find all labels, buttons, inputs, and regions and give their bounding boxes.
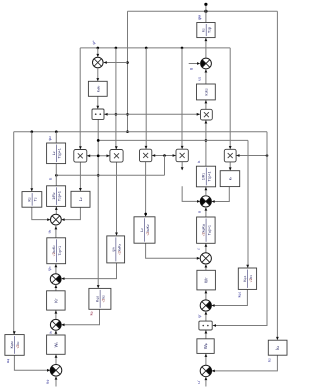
arrow into sumF right (212, 200, 215, 203)
sum circle S2R (200, 300, 211, 311)
block P1 gain (88, 81, 107, 96)
wire M1 out (79, 162, 81, 190)
svg-text:ψ*: ψ* (92, 40, 96, 45)
multiplier M2 (110, 150, 123, 163)
arrow into sumF left (197, 200, 200, 203)
arrow into mult M3 (145, 146, 148, 149)
node left chain tap (55, 174, 58, 177)
wire V8 tap down (164, 156, 166, 176)
arrow into block KM (13, 331, 16, 334)
block L2 transfer (47, 186, 66, 207)
block F gain (89, 288, 111, 309)
block K2 gain KT (47, 291, 66, 310)
divide block D2 (199, 321, 212, 330)
block BC transfer (47, 238, 66, 264)
block J regulator Wpsi (197, 339, 214, 354)
sum circle SF filled (200, 196, 211, 207)
arrow into block Ls (181, 167, 184, 170)
wire input u stub (189, 63, 200, 65)
wire G up to CR (205, 264, 207, 270)
sum circle S3R (200, 365, 211, 376)
arrow into C2 bottom (55, 226, 58, 229)
svg-text:L2: L2 (52, 151, 56, 155)
node psiM junction (204, 10, 207, 13)
block TR transfer (196, 166, 215, 187)
arrow into block G bottom (205, 290, 208, 293)
wire left feedback V1 (13, 132, 15, 334)
svg-text:T1p+1: T1p+1 (208, 172, 212, 182)
wire psiM output stub (205, 4, 207, 11)
arrow into block L2s (79, 188, 82, 191)
svg-text:k2: k2 (267, 358, 271, 362)
arrow into divide D1 (96, 106, 99, 109)
block kC gain (268, 340, 287, 355)
arrow into M3 right (152, 154, 155, 157)
wire divide D1 down V4 (97, 119, 99, 287)
block W2 regulator (47, 335, 66, 354)
wire S2R up to G (205, 290, 207, 300)
node H3 x=56.3 (55, 130, 58, 133)
wire M5 right input (236, 155, 267, 157)
svg-text:k2: k2 (202, 28, 206, 32)
wire psiM block to bus (205, 11, 207, 22)
wire u psi input stub (55, 376, 57, 386)
wire B33 out to CR (146, 243, 200, 258)
svg-text:ú: ú (198, 211, 202, 213)
arrow into mult M5 (229, 146, 232, 149)
arrow into mult M4 (181, 146, 184, 149)
node V4 y=175.3 (97, 174, 100, 177)
arrow into C3 bottom (55, 285, 58, 288)
svg-text:uc: uc (48, 330, 52, 334)
block H gain (238, 268, 256, 289)
svg-text:√2ksKs: √2ksKs (117, 243, 121, 254)
arrow into block k6 (229, 167, 232, 170)
wire V9 x=182 (181, 48, 183, 148)
wire M6 up to P2 (205, 100, 207, 109)
svg-text:√2k2K2: √2k2K2 (146, 224, 150, 236)
svg-text:√2k2: √2k2 (102, 295, 106, 303)
svg-text:1/R1: 1/R1 (202, 173, 206, 181)
wire M5 out (229, 162, 231, 170)
wire C4 up to K2 (55, 310, 57, 319)
wire sumF up to TR (205, 187, 207, 196)
svg-text:kskr: kskr (96, 86, 100, 92)
node bus47 x=97.8 (97, 47, 100, 50)
svg-text:u´: u´ (196, 380, 201, 384)
arrow into mult M1 (79, 146, 82, 149)
arrow into L2 bottom (55, 207, 58, 210)
svg-text:ψA: ψA (111, 247, 115, 252)
svg-text:Kψ1: Kψ1 (243, 275, 247, 281)
arrow into psiM block bottom (205, 38, 208, 41)
wire bus y=47.9 (80, 47, 230, 49)
svg-text:√2k1: √2k1 (249, 275, 253, 283)
wire B22 out to C3 (62, 263, 117, 279)
arrow into mult M6 left (197, 113, 200, 116)
svg-text:T2p+1: T2p+1 (58, 148, 62, 158)
wire C3 up to BC (55, 264, 57, 274)
arrow into C5 left (47, 369, 50, 372)
arrow into sum C1 top (96, 54, 99, 57)
wire V12 x=248 (247, 140, 249, 267)
wire W2 up to C4 (55, 330, 57, 335)
svg-text:L2: L2 (140, 228, 144, 232)
svg-text:√2kψKψ: √2kψKψ (202, 224, 206, 236)
arrow into BC bottom (55, 264, 58, 267)
wire S3R up to J (205, 353, 207, 365)
svg-text:i2: i2 (49, 177, 53, 180)
arrow into divide D2 right (213, 324, 216, 327)
node H3 x=31.8 (31, 130, 34, 133)
wire K2 up to C3 (55, 285, 57, 291)
arrow into sum S1 left (197, 62, 200, 65)
node V5 y=114.3 (115, 113, 118, 116)
wire KM out to C5 (14, 355, 49, 370)
svg-text:kr: kr (228, 177, 233, 180)
node above B33 (144, 213, 147, 216)
wire V5 x=115.9 (115, 48, 117, 149)
node V4 y=155.8 (97, 155, 100, 158)
arrow into S3R bottom (205, 377, 208, 380)
arrow into C2 right (61, 218, 64, 221)
arrow into CR left (197, 257, 200, 260)
wire CR up to D (205, 243, 207, 253)
svg-text:Wc: Wc (53, 341, 58, 347)
wire bus H4 y=140.4 (98, 139, 248, 141)
arrow into C4 right (61, 323, 64, 326)
arrow into M2 left (107, 154, 110, 157)
multiplier M4 (176, 149, 188, 162)
node bus47 x=146.2 (145, 47, 148, 50)
arrow into M5 right (236, 154, 239, 157)
node spine at H4 (205, 139, 208, 142)
wire Ls out to sumF (182, 186, 199, 201)
sum circle C2 (51, 214, 62, 225)
arrow into block B22 (115, 233, 118, 236)
wire S1 up to psiM block (205, 38, 207, 59)
svg-text:ψ´: ψ´ (198, 314, 202, 318)
wire F out to C4 (62, 309, 100, 325)
arrow into J bottom (205, 354, 208, 357)
multiplier M3 (140, 149, 152, 162)
wire V13 x=267 (213, 132, 267, 326)
block G regulator WT (197, 270, 216, 290)
arrow into block H (246, 265, 249, 268)
arrow into M4 left (173, 154, 176, 157)
block G-psiM transfer (197, 23, 215, 38)
arrow into block A (30, 188, 33, 191)
svg-text:Kψ2: Kψ2 (96, 295, 100, 301)
svg-text:Tcp+1: Tcp+1 (58, 246, 62, 256)
svg-text:k1k2: k1k2 (205, 88, 209, 95)
svg-text:ψc: ψc (48, 266, 52, 271)
arrow into D2 bottom (205, 330, 208, 333)
svg-text:i´: i´ (197, 247, 201, 249)
node link12 (97, 155, 100, 158)
multiplier M1 (74, 150, 87, 163)
wire C5 up to W2 (55, 354, 57, 364)
wire D up to sumF (205, 207, 207, 217)
wire L2s out to C2 (62, 207, 80, 219)
svg-text:ψ2: ψ2 (48, 136, 52, 141)
svg-text:kψ1: kψ1 (238, 291, 242, 297)
node psiM stub end (204, 3, 207, 6)
wire psiM line y=114.3 to M6 and D1 (104, 113, 200, 115)
wire M1-M2 link (87, 155, 110, 157)
wire J up to D2 (205, 330, 207, 339)
arrow into C5 bottom (55, 376, 58, 379)
arrow into W2 bottom (55, 355, 58, 358)
arrow into block F (97, 285, 100, 288)
multiplier M5 (224, 149, 236, 162)
wire V to block A (31, 132, 33, 191)
wire BC up to C2 (55, 225, 57, 238)
sum circle CR (200, 253, 211, 264)
arrow into C2 left (47, 218, 50, 221)
wire V11 x=230.2 to mult M5 (229, 48, 231, 149)
arrow into P2 bottom (205, 100, 208, 103)
arrow into block D bottom (205, 244, 208, 247)
wire k6 out to sumF (212, 187, 229, 202)
sum circle C1 (93, 57, 104, 68)
wire TR up to M6 (205, 120, 207, 166)
wire C1 to block P1 (97, 68, 99, 81)
wire psiM top bus y=11 (128, 10, 278, 12)
wire H out to S2R (212, 289, 247, 305)
wire L1 to L2 gap (55, 164, 57, 186)
arrow into M1 right (87, 154, 90, 157)
wire feedback right V14 (276, 11, 278, 339)
node V6 tap y=62.5 (126, 61, 129, 64)
arrow into mult M2 (115, 146, 118, 149)
arrow into S2R bottom (205, 311, 208, 314)
arrow into M6 bottom (205, 120, 208, 123)
wire left chain top (55, 132, 57, 143)
arrow into C3 right (61, 277, 64, 280)
svg-text:u1: u1 (197, 76, 201, 80)
wire P1 to divide D1 (97, 96, 99, 108)
svg-text:KT: KT (53, 298, 58, 303)
arrow into K2 bottom (55, 310, 58, 313)
block L1 transfer (47, 143, 66, 164)
arrow into S3R right (212, 370, 215, 373)
wire M3 out (145, 162, 147, 216)
wire P2 up to S1 (205, 69, 207, 84)
arrow into sum C1 right (104, 61, 107, 64)
svg-text:KψM: KψM (10, 341, 14, 348)
node V6 join H3 (126, 130, 129, 133)
arrow into block P1 (96, 78, 99, 81)
wire V2 x=80.2 (79, 48, 81, 149)
block B22 transfer (107, 236, 125, 263)
svg-text:uψ: uψ (45, 380, 50, 384)
wire M2 out (116, 162, 118, 235)
wire sumC1 right input (104, 62, 128, 64)
node bus47 x=115.9 (115, 47, 118, 50)
svg-text:1/R2: 1/R2 (52, 192, 56, 200)
svg-text:ψM: ψM (197, 14, 202, 20)
block L2s gain (71, 191, 90, 207)
arrow into S1 bottom (205, 69, 208, 72)
block P2 gain (197, 84, 216, 100)
node H4 left end (97, 139, 100, 142)
svg-text:K2: K2 (28, 197, 32, 202)
svg-text:Wψ: Wψ (203, 343, 208, 349)
svg-text:uψ: uψ (6, 359, 10, 363)
block D transfer (197, 217, 216, 243)
svg-text:√2kc: √2kc (16, 341, 20, 348)
svg-text:T2p+1: T2p+1 (58, 191, 62, 201)
arrow into CR bottom (205, 264, 208, 267)
svg-text:T2: T2 (34, 197, 38, 201)
sum circle C3 (50, 274, 61, 285)
multiplier M6 (201, 109, 213, 120)
wire D2 up to S2R (205, 311, 207, 321)
block KM gain (5, 335, 24, 356)
arrow into C4 bottom (55, 331, 58, 334)
wire kC out to S3R (212, 355, 277, 371)
arrow into block kC (276, 337, 279, 340)
wire V7 x=146.2 (145, 48, 147, 148)
arrow into block B33 (144, 214, 147, 217)
node V4 at H4 (97, 139, 100, 142)
arrow into sumF bottom (205, 207, 208, 210)
svg-text:√2k2Kc: √2k2Kc (52, 245, 56, 257)
svg-text:i1: i1 (197, 160, 201, 163)
arrow into TR bottom (205, 187, 208, 190)
sum circle C5 (50, 365, 62, 377)
svg-text:Tψp+1: Tψp+1 (207, 225, 211, 235)
arrow into S2R right (211, 304, 214, 307)
svg-text:uc: uc (47, 229, 51, 233)
sum circle C4 (50, 319, 61, 330)
svg-text:kψ: kψ (90, 311, 94, 315)
wire V6 x=127.5 (127, 11, 129, 132)
wire V3 into sum C1 (97, 48, 99, 57)
divide block D1 (92, 109, 104, 119)
block A gain K2/T2 (22, 192, 42, 208)
svg-text:k2: k2 (275, 345, 280, 349)
wire A out to C2 (32, 207, 50, 219)
block B33 transfer (134, 217, 155, 243)
node bus47 x=182 (181, 47, 184, 50)
wire bus H3 y=131.7 (14, 131, 267, 133)
svg-text:WT: WT (204, 277, 209, 283)
sum circle S1 (201, 58, 212, 69)
wire C2 up to L2 (55, 206, 57, 214)
wire y=175.3 line (56, 174, 164, 176)
svg-text:L2: L2 (78, 197, 83, 201)
wire M3-M4 link (152, 155, 176, 157)
arrow into divide D1 right (104, 113, 107, 116)
node link34 x=164.5 (163, 154, 166, 157)
wire M4 out (181, 162, 183, 170)
node V13 y=155.5 (266, 154, 269, 157)
svg-text:T2p: T2p (208, 27, 212, 33)
wire u input right stub (205, 377, 207, 387)
node V6 tap y=114.3 (126, 113, 129, 116)
block k6 gain (220, 171, 240, 187)
